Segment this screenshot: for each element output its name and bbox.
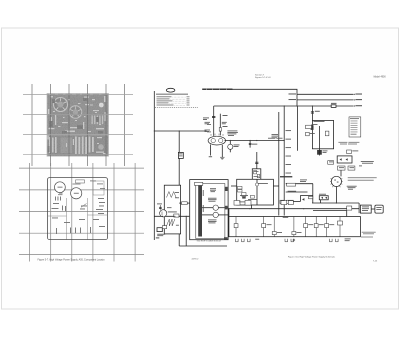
svg-text:4279-2: 4279-2 <box>192 259 200 261</box>
svg-text:Section 7: Section 7 <box>255 74 265 77</box>
svg-text:Figure 7-10. High Voltage Powe: Figure 7-10. High Voltage Power Supply S… <box>288 256 335 259</box>
svg-text:T800 HIGH VOLTAGE MODULE: T800 HIGH VOLTAGE MODULE <box>197 240 222 243</box>
svg-text:Figures 5-7 & 5-8: Figures 5-7 & 5-8 <box>255 77 271 79</box>
svg-text:Model 4900: Model 4900 <box>374 77 387 79</box>
svg-text:Figure 5-7. High Voltage Powe: Figure 5-7. High Voltage Power Supply, A… <box>38 259 106 262</box>
